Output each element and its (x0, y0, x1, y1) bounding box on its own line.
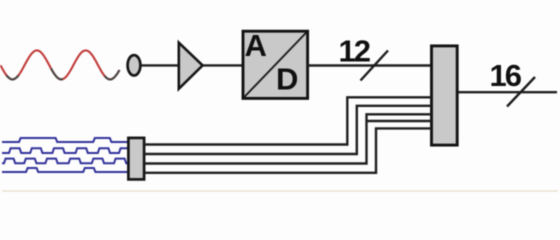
analog input sine wave (1, 50, 120, 79)
A/D converter box U1 (243, 31, 308, 98)
amplifier triangle (179, 43, 203, 89)
svg-text:D: D (276, 62, 298, 97)
wire mic to amplifier (141, 64, 178, 66)
microphone transducer symbol (128, 55, 141, 75)
digital bus line 3 with riser to multiplexer (144, 114, 432, 163)
digital input waveform trace 3 (2, 159, 133, 164)
A/D diagonal divider (244, 33, 306, 98)
digital input connector (128, 138, 144, 180)
svg-text:12: 12 (339, 34, 370, 69)
digital bus line 5 with riser to multiplexer (144, 128, 432, 172)
wire A/D to multiplexer, 12-bit bus (308, 64, 432, 66)
digital input waveform trace 2 (2, 148, 138, 153)
svg-text:A: A (245, 28, 267, 63)
digital bus line 2 with riser to multiplexer (144, 106, 432, 154)
output wire 16-bit bus (458, 91, 557, 93)
digital input waveform trace 1 (2, 138, 129, 142)
digital input waveform trace 4 (2, 168, 128, 172)
svg-text:16: 16 (490, 58, 522, 93)
digital bus line 1 with riser to multiplexer (144, 97, 432, 144)
dark marks at sine troughs (7, 75, 19, 79)
wire amplifier to A/D converter (203, 64, 243, 66)
bus width slash for 16 (507, 77, 535, 107)
digital bus branch line 4 into multiplexer (367, 120, 432, 122)
bus width slash for 12 (361, 51, 389, 81)
bottom faint separator line (2, 190, 558, 192)
multiplexer block (432, 46, 458, 145)
